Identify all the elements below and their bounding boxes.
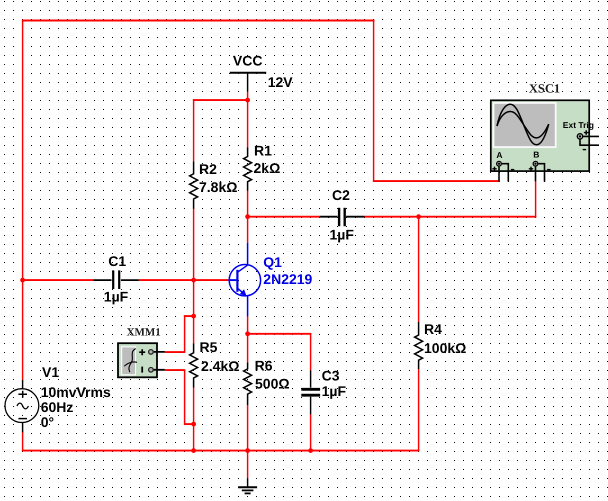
- svg-text:R6: R6: [255, 357, 273, 373]
- svg-text:60Hz: 60Hz: [41, 399, 74, 415]
- svg-text:R1: R1: [254, 143, 272, 159]
- svg-text:Q1: Q1: [263, 254, 282, 270]
- svg-text:2N2219: 2N2219: [263, 271, 312, 287]
- svg-text:7.8kΩ: 7.8kΩ: [199, 179, 237, 195]
- svg-text:C2: C2: [332, 187, 350, 203]
- svg-text:XMM1: XMM1: [127, 327, 161, 339]
- svg-text:R4: R4: [424, 321, 442, 337]
- svg-text:2kΩ: 2kΩ: [254, 160, 281, 176]
- svg-text:1µF: 1µF: [322, 383, 347, 399]
- svg-text:C1: C1: [108, 253, 126, 269]
- svg-text:R5: R5: [200, 339, 218, 355]
- svg-text:Ext Trig: Ext Trig: [563, 120, 594, 130]
- svg-text:B: B: [533, 150, 539, 160]
- svg-text:C3: C3: [322, 367, 340, 383]
- svg-text:V1: V1: [42, 364, 59, 380]
- svg-text:2.4kΩ: 2.4kΩ: [201, 358, 239, 374]
- svg-text:XSC1: XSC1: [529, 81, 560, 95]
- svg-text:R2: R2: [199, 161, 217, 177]
- svg-text:0°: 0°: [41, 414, 54, 430]
- svg-text:VCC: VCC: [233, 53, 263, 69]
- svg-text:1µF: 1µF: [104, 289, 129, 305]
- svg-text:10mvVrms: 10mvVrms: [41, 384, 111, 400]
- svg-text:A: A: [496, 150, 502, 160]
- svg-text:500Ω: 500Ω: [255, 375, 290, 391]
- svg-text:12V: 12V: [268, 74, 294, 90]
- svg-text:1µF: 1µF: [330, 227, 355, 243]
- svg-text:100kΩ: 100kΩ: [424, 340, 466, 356]
